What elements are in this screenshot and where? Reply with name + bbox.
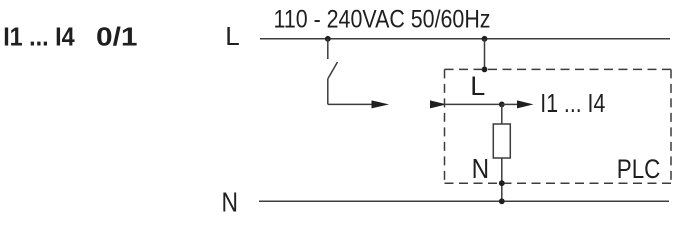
svg-text:L: L xyxy=(225,21,239,51)
PLC enclosure (dashed box) xyxy=(445,69,672,183)
svg-text:I1 ... I4: I1 ... I4 xyxy=(540,88,605,118)
junction dot at PLC input node xyxy=(499,102,505,108)
wire to I1...I4 xyxy=(502,103,518,105)
svg-text:N: N xyxy=(222,187,239,218)
wire switch output xyxy=(328,103,372,105)
resistor (PLC input impedance) xyxy=(493,124,510,158)
svg-text:0/1: 0/1 xyxy=(96,21,138,51)
arrowhead to I1...I4 xyxy=(517,100,534,108)
wire resistor to N xyxy=(501,158,503,201)
svg-text:I1 ... I4: I1 ... I4 xyxy=(3,21,75,51)
svg-text:110 - 240VAC 50/60Hz: 110 - 240VAC 50/60Hz xyxy=(274,5,491,33)
node PLC N terminal (dot on box edge) xyxy=(499,180,505,186)
junction dot on L rail at switch xyxy=(325,36,331,42)
wire into PLC L input xyxy=(445,103,502,105)
wire input node to resistor xyxy=(501,104,503,124)
arrowhead into PLC input xyxy=(430,100,447,108)
junction dot on L rail at PLC supply xyxy=(482,36,488,42)
svg-text:N: N xyxy=(472,153,490,184)
wire PLC supply drop xyxy=(484,39,486,70)
svg-text:L: L xyxy=(470,71,485,101)
node PLC L terminal (dot on box edge) xyxy=(482,67,488,73)
arrowhead switch output xyxy=(372,100,390,108)
svg-text:PLC: PLC xyxy=(617,154,661,184)
wire N rail (bottom horizontal) xyxy=(259,200,669,202)
wire L rail (top horizontal) xyxy=(260,38,670,40)
junction dot on N rail xyxy=(499,198,505,204)
switch S1 (NO contact) xyxy=(328,39,338,105)
